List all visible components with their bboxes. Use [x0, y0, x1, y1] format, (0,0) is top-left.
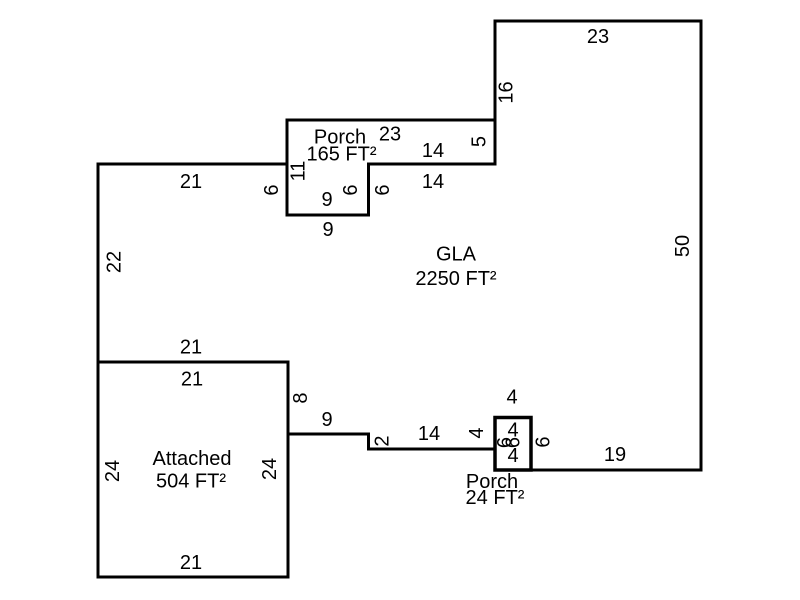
svg-text:11: 11	[288, 161, 310, 182]
wall GLA left (22)	[97, 164, 100, 362]
svg-text:165 FT²: 165 FT²	[306, 144, 376, 166]
svg-text:9: 9	[322, 219, 333, 241]
svg-text:21: 21	[180, 337, 202, 359]
wall GLA bottom right (19)	[531, 469, 701, 472]
wall porch165 extension right (6)	[367, 164, 370, 215]
wall attached top / GLA bottom (21/21)	[98, 361, 288, 364]
svg-text:8: 8	[290, 392, 312, 403]
svg-text:16: 16	[496, 81, 518, 103]
wall GLA wire (14)	[369, 448, 496, 451]
svg-text:GLA: GLA	[436, 244, 477, 266]
svg-text:6: 6	[533, 436, 555, 447]
porch24 box	[495, 418, 531, 471]
svg-text:50: 50	[672, 235, 694, 257]
svg-text:6: 6	[261, 184, 283, 195]
svg-text:2: 2	[372, 435, 394, 446]
wall attached right (24/8)	[287, 362, 290, 577]
svg-text:14: 14	[418, 423, 440, 445]
svg-text:6: 6	[340, 184, 362, 195]
svg-text:23: 23	[379, 124, 401, 146]
svg-text:4: 4	[506, 387, 517, 409]
svg-text:9: 9	[321, 189, 332, 211]
wall GLA top (23)	[495, 20, 701, 23]
svg-text:4: 4	[466, 427, 488, 438]
svg-text:2250 FT²: 2250 FT²	[415, 268, 496, 290]
svg-text:14: 14	[422, 140, 444, 162]
wall porch165 top (23)	[287, 119, 495, 122]
wall GLA top-left (21)	[98, 163, 287, 166]
svg-text:22: 22	[104, 251, 126, 273]
svg-text:21: 21	[180, 552, 202, 574]
wall GLA step (2)	[367, 434, 370, 449]
wall porch165 left (11)	[286, 120, 289, 215]
svg-text:Attached: Attached	[153, 448, 232, 470]
svg-text:504 FT²: 504 FT²	[156, 471, 226, 493]
wall GLA right (50)	[700, 21, 703, 470]
svg-text:21: 21	[181, 369, 203, 391]
wall porch165 extension bottom (9)	[287, 214, 369, 217]
wall GLA wire (9)	[288, 433, 369, 436]
svg-text:19: 19	[604, 444, 626, 466]
svg-text:24: 24	[259, 458, 281, 480]
svg-text:24 FT²: 24 FT²	[466, 487, 525, 509]
svg-text:24: 24	[102, 460, 124, 482]
svg-text:9: 9	[321, 409, 332, 431]
svg-text:23: 23	[587, 26, 609, 48]
svg-text:5: 5	[469, 136, 491, 147]
wall GLA block left (16)	[494, 21, 497, 164]
wall GLA/porch shared bottom of strip (14)	[369, 163, 496, 166]
svg-text:4: 4	[507, 445, 518, 467]
svg-text:21: 21	[180, 171, 202, 193]
wall attached left (24)	[97, 362, 100, 577]
svg-text:14: 14	[422, 171, 444, 193]
wall attached bottom (21)	[98, 576, 288, 579]
svg-text:6: 6	[372, 184, 394, 195]
